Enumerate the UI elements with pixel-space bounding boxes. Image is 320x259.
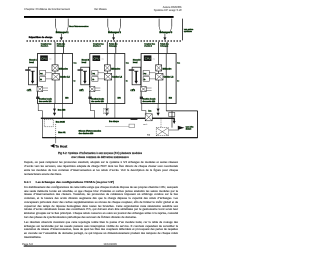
down arrow in node card module 3 <box>134 70 138 72</box>
wire: riser right module 1 <box>63 42 65 54</box>
small relay box <box>129 124 135 127</box>
wire: bus drop left module 3 <box>158 19 160 27</box>
wire: internal bus left module 3 <box>158 54 160 104</box>
CPU block module 3 <box>144 55 152 61</box>
svg-text:systèmes: systèmes <box>184 30 192 33</box>
svg-text:CPU: CPU <box>41 57 47 61</box>
svg-text:eth: eth <box>81 88 83 91</box>
svg-text:Bus SCSI: Bus SCSI <box>56 121 65 124</box>
register block 2 module 1 <box>40 77 46 82</box>
crossbar switch bottom module3 <box>145 114 152 121</box>
wire: left step drop module 3 <box>142 104 146 118</box>
footer left text <box>22 243 33 246</box>
svg-text:des accès E/S: des accès E/S <box>143 100 156 103</box>
register block 1 module 3 <box>143 71 149 76</box>
header rule <box>24 16 174 18</box>
wire: internal bus right module 3 <box>165 54 167 104</box>
crossbar switch B module 3 <box>156 74 163 81</box>
svg-text:tlb: tlb <box>144 78 146 81</box>
grey crossbar module2 drop <box>103 108 108 113</box>
edge connector module 3 <box>140 97 143 99</box>
svg-text:échanges: échanges <box>57 45 65 48</box>
wire: riser right module 3 <box>166 42 168 54</box>
svg-text:d’accès 1: d’accès 1 <box>41 45 49 48</box>
svg-text:mc: mc <box>153 58 155 60</box>
svg-text:bus: bus <box>74 61 77 64</box>
svg-text:reg: reg <box>144 73 147 75</box>
wire: stub reg2 module 2 <box>98 78 104 80</box>
wire: stub reg1 module 1 <box>46 72 52 74</box>
I/O adapter module 1 <box>37 87 43 92</box>
svg-text:local: local <box>82 61 87 64</box>
flare left drop module 2 <box>108 27 110 33</box>
footer center text <box>104 243 117 246</box>
flare right drop module 2 <box>119 27 121 33</box>
header left text <box>24 8 70 11</box>
CPU block module 2 <box>93 55 101 61</box>
wire: drop v1 with arrows module 2 <box>106 104 108 114</box>
crossbar switch A module 2 <box>104 65 110 71</box>
edge connector module 1 <box>36 97 39 99</box>
svg-text:ln•: ln• <box>74 79 76 82</box>
section heading <box>24 181 178 185</box>
bus: right return line (top) <box>166 110 197 112</box>
svg-text:des accès E/S: des accès E/S <box>39 100 52 103</box>
wire: mid vertical <box>171 111 173 128</box>
svg-text:CPU: CPU <box>145 57 151 61</box>
register block 2 module 2 <box>92 77 98 82</box>
register block 1 module 1 <box>40 71 46 76</box>
cluster box module 3 <box>141 54 176 104</box>
svg-text:local: local <box>133 61 138 64</box>
junction box on bus <box>169 112 175 116</box>
dashed bridge box left <box>44 119 53 127</box>
svg-text:Cache L2: Cache L2 <box>112 76 123 79</box>
wire: bus drop right module 1 <box>67 19 69 27</box>
svg-text:⊢d: ⊢d <box>147 133 150 136</box>
wire: adapter stub 1 module 3 <box>146 87 151 89</box>
svg-text:eth: eth <box>132 88 134 91</box>
svg-text:bus: bus <box>126 61 129 64</box>
node card module 2 <box>81 67 90 85</box>
svg-text:ln•: ln• <box>177 79 179 82</box>
svg-text:échanges: échanges <box>160 45 168 48</box>
svg-text:des accès E/S: des accès E/S <box>91 100 104 103</box>
wire: bus drop right module 3 <box>171 19 173 27</box>
figure caption <box>0 151 200 160</box>
svg-text:Cache L2: Cache L2 <box>164 76 175 79</box>
cluster box module 1 <box>38 54 73 104</box>
bus: local I/O bus (bus1) <box>41 118 174 121</box>
svg-text:mc: mc <box>102 58 104 60</box>
wire: adapter stub 2 module 2 <box>95 89 100 91</box>
svg-text:eth: eth <box>29 88 31 91</box>
node card module 3 <box>132 67 141 85</box>
header right text <box>154 6 182 13</box>
header center text <box>94 8 107 11</box>
svg-text:d’accès 2: d’accès 2 <box>93 45 101 48</box>
footer rule <box>24 246 177 247</box>
I/O adapter module 2 <box>89 87 95 92</box>
wire: faint link module2 <box>105 125 132 127</box>
dashed gateway box right <box>156 128 168 136</box>
wire: stub reg1 module 3 <box>149 72 155 74</box>
CPU block module 1 <box>40 55 48 61</box>
svg-text:bus: bus <box>177 61 180 64</box>
down arrow in node card module 2 <box>83 70 87 72</box>
svg-text:des clusters E/S: des clusters E/S <box>79 132 94 135</box>
wire: internal bus left module 1 <box>54 54 56 104</box>
wire: stub reg2 module 1 <box>46 78 52 80</box>
svg-text:mc: mc <box>49 58 51 60</box>
wire: adapter stub 2 module 3 <box>146 89 151 91</box>
paragraph C <box>24 221 178 240</box>
wire: riser left module 3 <box>158 42 160 54</box>
cluster box module 2 <box>90 54 125 104</box>
register block 2 module 3 <box>143 77 149 82</box>
flare left drop module 3 <box>159 27 161 33</box>
wire: internal bus left module 2 <box>106 54 108 104</box>
arrow to interconnect bus module 3 <box>164 34 166 38</box>
wire: left step drop module 2 <box>91 104 95 118</box>
svg-text:reg: reg <box>92 73 95 75</box>
crossbar switch A module 3 <box>156 65 162 71</box>
bus: network bus (busB) <box>42 137 197 139</box>
wire: adapter stub 1 module 1 <box>43 87 48 89</box>
svg-text:tlb: tlb <box>40 78 42 81</box>
paragraph A <box>24 161 178 176</box>
svg-text:CPU: CPU <box>94 57 100 61</box>
interconnect bus (dotted) <box>27 40 182 42</box>
wire: internal bus right module 1 <box>62 54 64 104</box>
wire: far left drop to network bus <box>41 118 43 138</box>
svg-text:Cache L2: Cache L2 <box>60 76 71 79</box>
down arrow in node card module 1 <box>31 70 35 72</box>
wire: bus drop left module 1 <box>55 19 57 27</box>
arrow to remote host <box>178 126 185 130</box>
svg-text:lien: lien <box>148 109 151 112</box>
svg-text:Mémoire: Mémoire <box>163 67 173 70</box>
tick under bus1 <box>131 119 138 120</box>
wire: internal bus right module 2 <box>114 54 116 104</box>
crossbar switch A module 1 <box>52 65 58 71</box>
wire: riser left module 2 <box>106 42 108 54</box>
arrow to interconnect bus module 1 <box>60 34 62 38</box>
edge connector module 2 <box>89 97 92 99</box>
wire: bus drop right module 2 <box>120 19 122 27</box>
arrow to interconnect bus module 2 <box>113 34 115 38</box>
svg-text:reg: reg <box>40 73 43 75</box>
wire: adapter stub 1 module 2 <box>95 87 100 89</box>
label NIC module 1 <box>25 69 30 71</box>
wire: gateway link <box>169 129 179 131</box>
wire: drop v2 module 3 <box>165 104 167 111</box>
svg-text:Bus d’interconnexion: Bus d’interconnexion <box>69 25 89 28</box>
svg-text:Bus E/S: Bus E/S <box>58 109 66 112</box>
wire: drop v1 with arrows module 1 <box>54 104 56 114</box>
paragraph B <box>24 186 178 219</box>
wire: dashed vertical <box>55 124 57 138</box>
svg-text:Bus disque: Bus disque <box>109 120 120 123</box>
flare left drop module 1 <box>56 27 58 33</box>
label NIC module 2 <box>78 69 83 71</box>
wire: bus drop left module 2 <box>107 19 109 27</box>
label NIC module 3 <box>129 69 134 71</box>
node card module 1 <box>29 67 38 85</box>
wire: left step drop module 1 <box>38 104 42 118</box>
wire: dashed drop right <box>160 119 162 128</box>
wire: right vertical <box>197 111 199 138</box>
svg-text:Répartition de charge: Répartition de charge <box>29 36 53 39</box>
I/O adapter module 3 <box>141 87 147 92</box>
crossbar switch B module 1 <box>52 74 59 81</box>
crossbar switch B module 2 <box>104 74 111 81</box>
wire: drop v1 with arrows module 3 <box>157 104 159 114</box>
svg-text:ln•: ln• <box>126 79 128 82</box>
svg-text:Mémoire: Mémoire <box>59 67 69 70</box>
wire: adapter stub 2 module 1 <box>43 89 48 91</box>
wire: drop v2 module 2 <box>114 104 116 118</box>
wire: drop v2 module 1 <box>62 104 64 118</box>
svg-text:distant: distant <box>186 128 192 131</box>
svg-text:tlb: tlb <box>92 78 94 81</box>
wire: external link line <box>182 19 184 41</box>
wire: riser left module 1 <box>54 42 56 54</box>
wire: To Host tick <box>55 138 57 144</box>
svg-text:local: local <box>29 61 34 64</box>
svg-text:Mémoire: Mémoire <box>111 67 121 70</box>
svg-text:nœ.3: nœ.3 <box>143 123 147 126</box>
svg-text:Bus réf.: Bus réf. <box>58 131 66 134</box>
svg-text:To Host: To Host <box>55 145 68 149</box>
wire: stub reg1 module 2 <box>98 72 104 74</box>
flare right drop module 1 <box>67 27 69 33</box>
wire: riser right module 2 <box>115 42 117 54</box>
svg-text:échanges: échanges <box>109 45 117 48</box>
arrowhead on bus corner <box>173 121 176 124</box>
register block 1 module 2 <box>92 71 98 76</box>
flare right drop module 3 <box>170 27 172 33</box>
wire: stub reg2 module 3 <box>149 78 155 80</box>
svg-text:d’accès 3: d’accès 3 <box>144 45 152 48</box>
